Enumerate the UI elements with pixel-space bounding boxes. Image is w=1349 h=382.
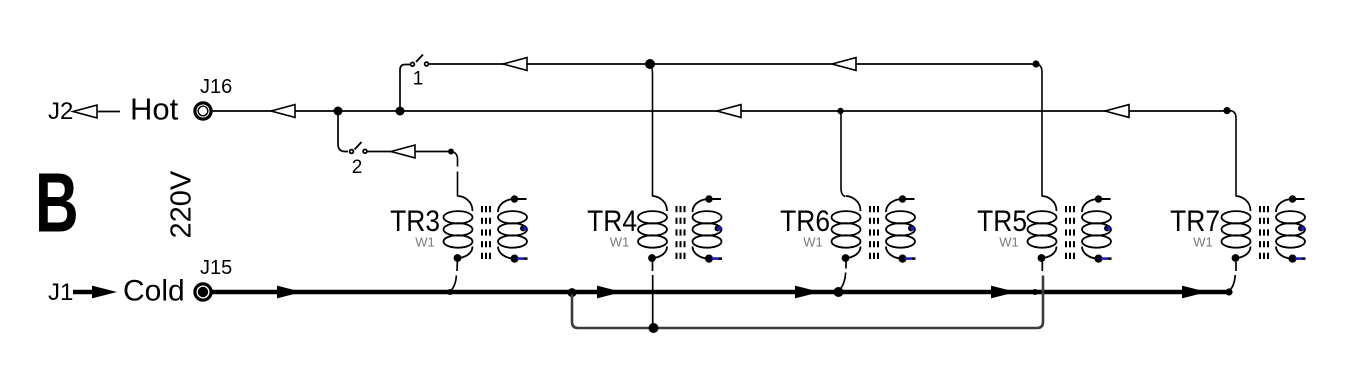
svg-text:W1: W1	[803, 235, 823, 250]
arrow on Hot wire 1	[271, 105, 295, 118]
svg-text:J2: J2	[48, 98, 73, 125]
connector J15	[195, 284, 211, 300]
svg-text:W1: W1	[999, 235, 1019, 250]
arrow on Hot wire 2	[717, 105, 741, 118]
junction Cold at TR3	[447, 289, 453, 295]
junction Cold at TR5	[1032, 289, 1038, 295]
junction on Hot at TR6 branch	[837, 108, 843, 114]
wire TR5 primary bottom	[1041, 261, 1043, 271]
svg-text:TR7: TR7	[1170, 203, 1220, 237]
wire Hot main	[212, 110, 1227, 112]
transformer TR4	[638, 195, 722, 262]
arrow on Cold wire 4	[991, 286, 1016, 299]
transformer TR7	[1222, 195, 1306, 262]
wire switch2 line	[367, 151, 449, 153]
svg-text:W1: W1	[415, 235, 435, 250]
junction on Hot at TR7 branch	[1223, 107, 1230, 114]
node switch2 end	[448, 149, 454, 155]
arrow on switch1 line 1	[503, 58, 527, 71]
arrow on Cold wire 1	[277, 286, 302, 299]
svg-text:B: B	[35, 156, 79, 250]
arrow on Hot wire 3	[1105, 105, 1129, 118]
svg-text:2: 2	[352, 157, 363, 178]
transformer TR3	[444, 195, 528, 262]
wire to switch 2	[338, 111, 348, 152]
wire Cold main	[212, 290, 1229, 295]
svg-text:J1: J1	[48, 279, 73, 306]
transformer TR6	[832, 195, 916, 262]
wire TR5 primary top	[1036, 64, 1042, 197]
wire TR4 primary bottom	[652, 261, 654, 326]
junction Cold at bus drop	[568, 288, 577, 297]
switch 1	[411, 55, 429, 67]
wire to switch 1	[400, 65, 410, 112]
arrow on Cold wire 2	[597, 286, 622, 299]
arrow on Cold wire 5	[1182, 286, 1207, 299]
arrow to J2	[73, 105, 120, 118]
junction Cold end at TR7	[1225, 288, 1232, 295]
arrow on switch2 line	[391, 145, 415, 158]
arrow on switch1 line 2	[832, 58, 856, 71]
connector J16	[195, 103, 211, 119]
svg-text:J15: J15	[200, 257, 232, 279]
wire TR3 primary bottom	[452, 261, 458, 290]
wire lower bus	[572, 276, 1043, 329]
wire TR7 primary top	[1227, 111, 1236, 197]
junction on Hot at switch2 branch	[334, 107, 343, 116]
wire TR6 primary top	[841, 111, 846, 197]
junction bus at TR4	[649, 323, 659, 333]
svg-text:TR3: TR3	[390, 203, 440, 237]
wire TR4 primary top	[650, 64, 653, 197]
svg-text:TR6: TR6	[780, 203, 830, 237]
wire TR6 primary bottom	[840, 261, 846, 290]
junction Cold at TR6	[834, 287, 844, 297]
node at TR5 branch	[1032, 60, 1039, 67]
wire switch2 to TR3	[451, 152, 458, 197]
svg-text:1: 1	[413, 69, 424, 90]
svg-text:Hot: Hot	[130, 92, 179, 127]
transformer TR5	[1028, 195, 1112, 262]
wire switch1 line	[429, 63, 1036, 65]
arrow on Cold wire 3	[795, 286, 820, 299]
junction on Hot at switch1 branch	[396, 107, 405, 116]
arrow from J1	[73, 286, 117, 299]
svg-text:Cold: Cold	[123, 275, 185, 308]
junction on switch1 line at TR4	[645, 59, 655, 69]
wire TR7 primary bottom	[1231, 262, 1237, 290]
svg-text:220V: 220V	[166, 170, 198, 238]
svg-text:W1: W1	[1193, 235, 1213, 250]
svg-text:J16: J16	[200, 76, 232, 98]
svg-text:TR4: TR4	[587, 203, 637, 237]
switch 2	[350, 142, 367, 153]
svg-text:W1: W1	[610, 235, 630, 250]
svg-text:TR5: TR5	[977, 203, 1027, 237]
